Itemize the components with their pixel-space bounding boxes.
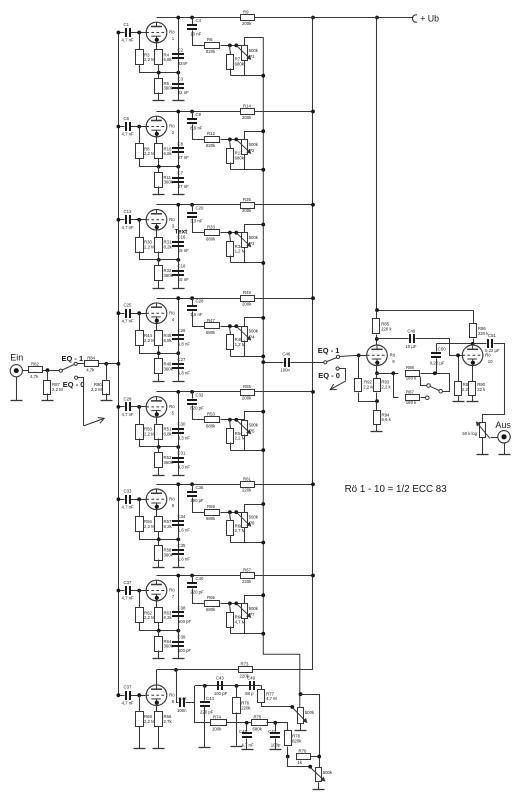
wire R87b branch bbox=[394, 374, 399, 398]
svg-text:820k: 820k bbox=[206, 143, 216, 148]
svg-text:220k: 220k bbox=[242, 579, 252, 584]
junction stage6 rail series cap bbox=[190, 482, 194, 486]
ground stage6 cathode bbox=[153, 567, 165, 569]
wire R85 top lead bbox=[376, 311, 378, 319]
ground stage4 cathode bbox=[153, 381, 165, 383]
potentiometer 500k P7 stage7 bbox=[236, 604, 258, 619]
connector output jack Aus bbox=[498, 431, 510, 443]
junction input bus stage8 bbox=[117, 693, 121, 697]
svg-text:4,7 nF: 4,7 nF bbox=[122, 505, 135, 510]
junction input node bbox=[46, 368, 50, 372]
svg-text:P4: P4 bbox=[249, 335, 255, 340]
junction stage5 bus top bbox=[261, 410, 265, 414]
svg-text:Text: Text bbox=[175, 228, 189, 235]
junction stage3 wiper node bbox=[234, 231, 238, 235]
junction stage2 bus bottom bbox=[261, 168, 265, 172]
net +Ub vertical rail A (x=313) bbox=[312, 18, 314, 670]
wire C42 top lead bbox=[177, 670, 179, 703]
ground output pot bbox=[477, 454, 489, 456]
svg-text:680k: 680k bbox=[206, 330, 216, 335]
junction stage6 node A bbox=[228, 510, 232, 514]
resistor R8 grid leak bbox=[136, 144, 156, 159]
wire stage3 Rp top lead bbox=[230, 233, 231, 242]
wire stage2 pot bottom lead bbox=[244, 155, 246, 170]
resistor R53 series bbox=[205, 412, 220, 429]
svg-text:C9: C9 bbox=[196, 112, 202, 117]
wire stage2 cathode node bbox=[140, 159, 179, 167]
wire pot 500k bottom bbox=[300, 724, 302, 731]
svg-text:Rö: Rö bbox=[169, 30, 175, 35]
switch EQ-1 contact (input) bbox=[74, 362, 77, 365]
resistor R32 cathode lower bbox=[155, 266, 174, 281]
wire pot wiper to jack bbox=[491, 437, 498, 439]
wire stage1 lower res leads bbox=[158, 73, 160, 79]
resistor R62 grid leak bbox=[136, 608, 156, 623]
svg-text:C30: C30 bbox=[178, 422, 186, 427]
wire stage3 lower res to ground bbox=[158, 281, 160, 289]
wire stage5 bottom line to bus bbox=[231, 450, 264, 452]
wire C45 top lead bbox=[246, 723, 248, 732]
svg-text:Rö: Rö bbox=[169, 217, 175, 222]
switch EQ pole (output) bbox=[324, 361, 327, 364]
svg-text:4,7 nF: 4,7 nF bbox=[122, 596, 135, 601]
capacitor C27 bypass lower bbox=[172, 357, 190, 376]
svg-text:180 k: 180 k bbox=[406, 400, 417, 405]
resistor R77 feedback bbox=[258, 690, 278, 703]
svg-text:0,22 µF: 0,22 µF bbox=[430, 361, 445, 366]
wire stage4 cathode lead bbox=[157, 324, 159, 331]
resistor R14 anode supply bbox=[241, 104, 255, 120]
wire R84 to bus bbox=[99, 363, 119, 365]
potentiometer 500k P4 stage4 bbox=[236, 326, 258, 341]
net +Ub vertical rail B (x=377) bbox=[376, 18, 378, 311]
wire R75 right segment bbox=[267, 723, 288, 731]
wire stage4 anode rail bbox=[157, 298, 313, 300]
junction rail A top bbox=[311, 16, 315, 20]
wire stage2 series cap top lead bbox=[192, 112, 194, 119]
resistor R76 shunt bbox=[233, 698, 252, 714]
wire stage1 Rp bottom lead bbox=[230, 69, 232, 76]
resistor R34 filter bbox=[227, 242, 246, 257]
svg-text:27 nF: 27 nF bbox=[178, 184, 189, 189]
resistor R84 EQ path bbox=[85, 355, 99, 372]
junction stage2 cathode node b bbox=[176, 165, 180, 169]
wire stage1 cathode node bbox=[140, 65, 179, 73]
resistor R30 grid leak bbox=[136, 238, 156, 253]
svg-text:2,2 M: 2,2 M bbox=[144, 719, 155, 724]
svg-text:500 pF: 500 pF bbox=[178, 648, 192, 653]
wire R68 to ground bbox=[139, 727, 141, 749]
resistor R94 cathode bias bbox=[374, 411, 392, 425]
triode U5 (Roe 5, 1/2 ECC83) bbox=[146, 397, 175, 418]
wire stage1 anode rail bbox=[157, 17, 413, 19]
svg-text:15 nF: 15 nF bbox=[178, 248, 189, 253]
svg-text:500k: 500k bbox=[249, 48, 259, 53]
svg-text:R87: R87 bbox=[406, 389, 414, 394]
wire R90b to ground bbox=[472, 396, 474, 402]
potentiometer 500k bottom bbox=[310, 768, 332, 782]
wire stage5 grid resistor lead bbox=[139, 407, 141, 425]
junction stage6 wiper node bbox=[234, 510, 238, 514]
wire stage8 input from bus bbox=[119, 695, 125, 697]
wire R68 top lead bbox=[139, 696, 141, 712]
junction stage3 grid node bbox=[137, 218, 141, 222]
capacitor C3 bypass lower bbox=[172, 76, 189, 95]
triode U10 (Roe 10) bbox=[462, 345, 493, 366]
svg-text:C34: C34 bbox=[178, 514, 186, 519]
wire stage8 anode rail bbox=[157, 669, 313, 671]
junction stage2 cathode node a bbox=[157, 165, 161, 169]
wire cathode 9 lead bbox=[376, 366, 378, 374]
junction pot bus tap bbox=[261, 360, 265, 364]
resistor R89 grid leak 10 bbox=[455, 382, 462, 396]
wire pot bottom lead bbox=[482, 438, 484, 455]
resistor R85 anode load 9 bbox=[373, 319, 393, 334]
resistor R92 grid leak 9 bbox=[355, 379, 362, 392]
junction input bus stage4 bbox=[117, 311, 121, 315]
capacitor C7 bypass lower bbox=[172, 170, 189, 189]
wire R94 to ground bbox=[376, 425, 378, 432]
junction stage6 grid node bbox=[137, 497, 141, 501]
junction stage7 grid node bbox=[137, 589, 141, 593]
wire stage2 cathode lead bbox=[157, 137, 159, 144]
junction stage5 rail cap chain bbox=[176, 390, 180, 394]
resistor R66 cathode 8 bbox=[155, 712, 173, 727]
resistor R56 grid leak bbox=[136, 517, 156, 532]
svg-text:R59: R59 bbox=[207, 504, 215, 509]
wire stage7 pot top to bus bbox=[245, 596, 264, 604]
wire stage1 grid resistor lead bbox=[139, 33, 141, 50]
wire stage2 bottom line to bus bbox=[231, 169, 264, 171]
resistor R93 cathode 9 bbox=[374, 379, 381, 392]
junction stage5 cathode node a bbox=[157, 445, 161, 449]
junction stage3 bus top bbox=[261, 223, 265, 227]
junction tube9 grid node bbox=[357, 354, 361, 358]
wire stage4 grid resistor lead bbox=[139, 314, 141, 331]
junction stage4 cathode node b bbox=[176, 351, 180, 355]
wire stage6 Rp bottom lead bbox=[230, 536, 232, 543]
wire R78 to bottom pot bbox=[288, 757, 311, 767]
svg-text:R14: R14 bbox=[243, 104, 251, 109]
svg-text:500k: 500k bbox=[305, 710, 315, 715]
svg-text:C3: C3 bbox=[178, 76, 184, 81]
capacitor C44 shunt bbox=[200, 701, 210, 707]
junction stage7 bus top bbox=[261, 593, 265, 597]
svg-text:2,2 k: 2,2 k bbox=[381, 384, 391, 389]
wire C51 to output elbow bbox=[483, 344, 505, 423]
capacitor C49 coupling bbox=[405, 328, 416, 349]
triode U3 (Roe 3, 1/2 ECC83) bbox=[146, 210, 175, 231]
wire stage6 series cap to resistor bbox=[193, 498, 205, 513]
svg-text:P6: P6 bbox=[249, 521, 255, 526]
capacitor C28 series bbox=[187, 299, 204, 317]
capacitor C40 series bbox=[187, 576, 204, 594]
junction input bus stage6 bbox=[117, 497, 121, 501]
junction stage6 cathode node a bbox=[157, 538, 161, 542]
wire lever to R84 bbox=[78, 363, 86, 365]
wire grid10 to R89 bbox=[458, 356, 460, 382]
wire R93 bottom lead bbox=[376, 393, 378, 402]
svg-text:R73: R73 bbox=[241, 662, 249, 667]
svg-text:2,7k: 2,7k bbox=[164, 719, 173, 724]
junction stage4 rail cap chain bbox=[176, 296, 180, 300]
wire stage3 anode rail bbox=[157, 204, 313, 206]
wire node to R90 bbox=[106, 364, 108, 381]
svg-text:500 pF: 500 pF bbox=[178, 619, 192, 624]
wire EQ-0 annotation arrow (input) bbox=[84, 418, 105, 426]
wire cathode9 to R88 bbox=[377, 373, 399, 375]
capacitor C37 input coupling bbox=[122, 580, 135, 601]
junction stage1 rail series cap bbox=[190, 16, 194, 20]
wire stage6 Rp top lead bbox=[230, 513, 231, 521]
ground C44 bbox=[199, 747, 211, 749]
wire R88 drop to lever bbox=[421, 377, 427, 386]
wire C47 top lead bbox=[275, 723, 277, 732]
svg-text:2,2 M: 2,2 M bbox=[144, 338, 155, 343]
capacitor C25 input coupling bbox=[122, 303, 135, 324]
potentiometer 500k master bbox=[293, 708, 315, 724]
ground R76b bbox=[231, 746, 243, 748]
wire stage7 grid bbox=[131, 590, 147, 592]
svg-text:82 nF: 82 nF bbox=[178, 90, 189, 95]
wire R94 top lead bbox=[376, 402, 378, 411]
junction stage4 wiper node bbox=[234, 324, 238, 328]
wire node to R87 bbox=[47, 371, 49, 381]
junction anode 9 node bbox=[375, 337, 379, 341]
svg-text:C36: C36 bbox=[196, 485, 204, 490]
ground stage7 cathode bbox=[153, 658, 165, 660]
junction input bus stage5 bbox=[117, 405, 121, 409]
junction stage4 bus top bbox=[261, 316, 265, 320]
resistor R10 cathode bbox=[155, 144, 173, 159]
junction stage4 rail series cap bbox=[190, 296, 194, 300]
wire C47 to ground bbox=[275, 739, 277, 750]
svg-text:680k: 680k bbox=[206, 516, 216, 521]
svg-text:6,8k: 6,8k bbox=[164, 338, 173, 343]
ground C47 bbox=[270, 749, 282, 751]
svg-text:680k: 680k bbox=[206, 607, 216, 612]
junction input bus stage1 bbox=[117, 31, 121, 35]
wire stage5 pot top to bus bbox=[245, 412, 264, 421]
wire stage7 series cap top lead bbox=[192, 576, 194, 583]
svg-text:100n: 100n bbox=[280, 367, 290, 372]
svg-text:Rö: Rö bbox=[169, 404, 175, 409]
wire stage3 cathode res bottom bbox=[158, 252, 160, 260]
resistor R66 filter bbox=[227, 613, 246, 628]
wire R90 to ground bbox=[106, 394, 108, 401]
svg-text:Rö: Rö bbox=[169, 124, 175, 129]
junction stage4 cathode node a bbox=[157, 351, 161, 355]
capacitor C45 shunt bbox=[242, 732, 252, 738]
svg-text:Rö: Rö bbox=[169, 497, 175, 502]
wire stage3 input from bus bbox=[119, 219, 125, 221]
junction stage4 node A bbox=[228, 324, 232, 328]
resistor R90b cathode 10 bbox=[469, 382, 476, 396]
switch EQ-0 contact (input) bbox=[75, 376, 78, 379]
wire stage3 cathode node bbox=[140, 252, 179, 260]
junction stage7 wiper node bbox=[234, 602, 238, 606]
junction stage3 rail to vertical rail bbox=[311, 203, 315, 207]
wire stage3 cap chain bbox=[178, 205, 180, 289]
wire stage6 bottom line to bus bbox=[231, 542, 264, 544]
svg-text:Rö: Rö bbox=[390, 353, 396, 358]
junction stage7 rail to vertical rail bbox=[311, 574, 315, 578]
resistor R76c divider bbox=[297, 748, 311, 765]
junction rail B bottom bbox=[375, 308, 379, 312]
wire jack to ground bbox=[16, 377, 18, 401]
wire stage5 Rp bottom lead bbox=[230, 443, 232, 451]
wire stage3 Rp bottom lead bbox=[230, 256, 232, 263]
junction C50 bottom bbox=[433, 371, 437, 375]
resistor R67 anode supply bbox=[241, 568, 255, 584]
junction C44 top bbox=[203, 684, 207, 688]
wire stage5 series cap to resistor bbox=[193, 406, 205, 420]
junction cathode 9 node bbox=[375, 371, 379, 375]
wire C50 bottom lead bbox=[436, 359, 438, 374]
junction stage6 rail to vertical rail bbox=[311, 482, 315, 486]
svg-text:220 k: 220 k bbox=[381, 326, 392, 331]
wire stage3 pot bottom lead bbox=[244, 248, 246, 263]
wire stage1 Rp top lead bbox=[230, 46, 231, 55]
junction input bus stage2 bbox=[117, 125, 121, 129]
svg-text:Rö: Rö bbox=[169, 310, 175, 315]
wire R88 right segment bbox=[421, 374, 450, 392]
svg-text:C44: C44 bbox=[206, 696, 214, 701]
junction stage5 bus bottom bbox=[261, 448, 265, 452]
wire stage7 cathode res bottom bbox=[158, 623, 160, 631]
wire stage5 series cap top lead bbox=[192, 392, 194, 399]
resistor R11 cathode lower bbox=[155, 173, 174, 188]
wire R77 top lead bbox=[261, 686, 263, 690]
ground R90b bbox=[467, 401, 479, 403]
wire C45 to ground bbox=[246, 739, 248, 750]
svg-text:EQ - 0: EQ - 0 bbox=[318, 371, 340, 380]
resistor R33 series bbox=[205, 224, 220, 241]
triode U2 (Roe 2, 1/2 ECC83) bbox=[146, 116, 175, 137]
svg-text:3,3 nF: 3,3 nF bbox=[178, 464, 191, 469]
svg-text:C20: C20 bbox=[196, 205, 204, 210]
svg-text:R74: R74 bbox=[213, 714, 221, 719]
resistor R65 series bbox=[205, 595, 220, 612]
svg-text:4,7 nF: 4,7 nF bbox=[122, 38, 135, 43]
capacitor C16 bypass upper bbox=[172, 235, 189, 254]
wire stage8 anode lead bbox=[156, 670, 158, 685]
wire stage1 cathode lead bbox=[157, 43, 159, 50]
svg-text:2,2 M: 2,2 M bbox=[144, 151, 155, 156]
triode U1 (Roe 1, 1/2 ECC83) bbox=[146, 22, 175, 43]
junction stage3 node A bbox=[228, 231, 232, 235]
junction stage5 wiper node bbox=[234, 418, 238, 422]
junction R76c right bbox=[317, 755, 321, 759]
svg-text:C39: C39 bbox=[178, 634, 186, 639]
resistor R88 feedback a bbox=[406, 371, 420, 377]
junction stage4 grid node bbox=[137, 311, 141, 315]
svg-text:C7: C7 bbox=[178, 170, 184, 175]
switch feedback lever bbox=[430, 386, 440, 390]
svg-text:68 p: 68 p bbox=[245, 691, 254, 696]
svg-text:6,8k: 6,8k bbox=[164, 432, 173, 437]
svg-text:R33: R33 bbox=[207, 224, 215, 229]
wire stage6 cathode lead bbox=[157, 510, 159, 517]
svg-text:C37: C37 bbox=[124, 580, 132, 585]
wire R85 to anode 9 bbox=[376, 335, 378, 345]
svg-text:P5: P5 bbox=[249, 428, 255, 433]
wire stage6 grid resistor lead bbox=[139, 500, 141, 517]
capacitor C26 bypass upper bbox=[172, 328, 190, 347]
svg-text:R9: R9 bbox=[243, 10, 249, 15]
resistor R50 grid leak bbox=[136, 425, 156, 440]
wire stage4 pot top to bus bbox=[245, 318, 264, 327]
wire C42 to network bbox=[186, 702, 195, 704]
wire stage3 grid bbox=[131, 219, 147, 221]
potentiometer 500k P3 stage3 bbox=[236, 233, 258, 248]
wire stage7 cathode node bbox=[140, 623, 179, 631]
junction R84 node bbox=[104, 362, 108, 366]
junction stage7 rail series cap bbox=[190, 574, 194, 578]
capacitor C36 series bbox=[187, 485, 204, 503]
svg-text:2,2 M: 2,2 M bbox=[144, 244, 155, 249]
svg-text:8,2k: 8,2k bbox=[164, 524, 173, 529]
capacitor C20 series bbox=[187, 205, 204, 223]
wire R89 to ground bbox=[458, 396, 460, 402]
wire R82 to node bbox=[43, 370, 48, 372]
svg-text:C35: C35 bbox=[178, 543, 186, 548]
wire R77 bottom to wiper bbox=[262, 703, 293, 707]
svg-text:220k: 220k bbox=[241, 705, 251, 710]
resistor R58 cathode lower bbox=[155, 546, 174, 561]
wire C49 to grid 10 bbox=[416, 339, 463, 356]
svg-text:200k: 200k bbox=[242, 21, 252, 26]
junction stage2 rail series cap bbox=[190, 110, 194, 114]
wire stage5 grid bbox=[131, 406, 147, 408]
wire R87b to contact bbox=[421, 397, 426, 399]
resistor R57 cathode bbox=[155, 517, 173, 532]
svg-text:4,7 M: 4,7 M bbox=[266, 696, 277, 701]
capacitor C35 bypass lower bbox=[172, 543, 190, 562]
svg-text:R65: R65 bbox=[207, 595, 215, 600]
ground stage3 cathode bbox=[153, 288, 165, 290]
resistor R35 anode supply bbox=[241, 197, 255, 213]
svg-text:4,7 nF: 4,7 nF bbox=[122, 700, 135, 705]
junction stage2 grid node bbox=[137, 125, 141, 129]
junction rail B top bbox=[375, 16, 379, 20]
wire stage2 anode rail bbox=[157, 111, 313, 113]
svg-text:6,8 nF: 6,8 nF bbox=[178, 342, 191, 347]
svg-text:6,8k: 6,8k bbox=[164, 151, 173, 156]
wire stage4 grid bbox=[131, 313, 147, 315]
wire C44 to ground bbox=[204, 707, 206, 748]
wire pot top branch right bbox=[301, 695, 320, 768]
capacitor C39 bypass lower bbox=[172, 634, 192, 653]
wire stage2 cap chain bbox=[178, 112, 180, 195]
svg-text:2,2 M: 2,2 M bbox=[363, 384, 374, 389]
svg-text:R47: R47 bbox=[207, 318, 215, 323]
resistor R52 cathode lower bbox=[155, 453, 174, 468]
junction anode 10 node bbox=[471, 342, 475, 346]
wire stage7 cathode lead bbox=[157, 601, 159, 608]
wire stage6 pot bottom lead bbox=[244, 528, 246, 543]
wire stage4 input from bus bbox=[119, 313, 125, 315]
wire stage3 bottom line to bus bbox=[231, 262, 264, 264]
junction stage1 bus bottom bbox=[261, 74, 265, 78]
junction stage5 rail to vertical rail bbox=[311, 390, 315, 394]
svg-text:C29: C29 bbox=[124, 396, 132, 401]
wire stage1 pot bottom lead bbox=[244, 61, 246, 76]
potentiometer 50k log output bbox=[476, 422, 490, 439]
capacitor C42 coupling bbox=[179, 698, 185, 707]
svg-text:500k: 500k bbox=[323, 770, 333, 775]
resistor R86 anode load 10 bbox=[470, 324, 490, 338]
